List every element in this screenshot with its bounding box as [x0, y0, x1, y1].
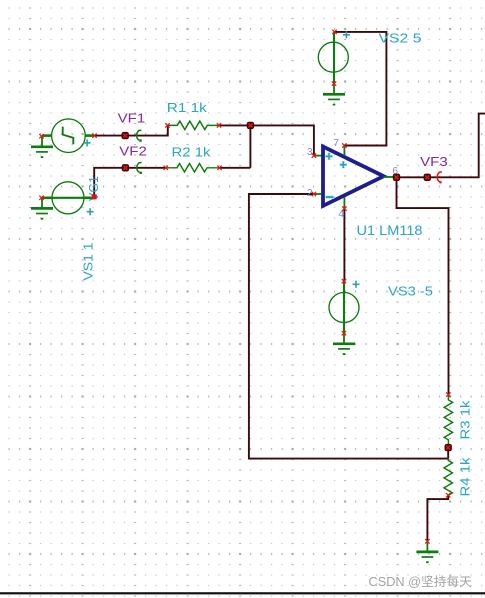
- svg-text:CSDN @坚持每天: CSDN @坚持每天: [369, 574, 473, 589]
- svg-text:VS1 1: VS1 1: [81, 243, 96, 281]
- ground: [31, 136, 53, 157]
- plus sign of VS1: [87, 208, 94, 215]
- junction node R3 R4: [445, 444, 452, 451]
- junction node output: [393, 174, 400, 181]
- pin end marker: [39, 196, 43, 200]
- minus marker input: [325, 195, 334, 199]
- pin end marker: [217, 123, 221, 127]
- probe VF2: [122, 163, 142, 175]
- pin end marker: [165, 123, 169, 127]
- pin end marker: [342, 143, 346, 147]
- wire: [427, 495, 448, 541]
- pin end marker: [342, 206, 346, 210]
- pin end marker: [217, 166, 221, 170]
- probe VF3: [424, 172, 442, 184]
- pin end marker: [446, 392, 450, 396]
- junction node: [247, 122, 254, 129]
- plus marker power: [340, 161, 348, 169]
- pin end marker: [425, 539, 429, 543]
- pin 4 stub: [343, 198, 345, 209]
- svg-text:R3 1k: R3 1k: [458, 400, 473, 440]
- op-amp U1: [323, 147, 384, 206]
- wire: [220, 167, 251, 169]
- voltage source VS3: [329, 281, 359, 333]
- svg-text:VF3: VF3: [420, 154, 448, 169]
- ground: [31, 198, 53, 219]
- svg-text:R1 1k: R1 1k: [167, 100, 208, 115]
- wire: [335, 32, 387, 146]
- resistor R4: [444, 459, 452, 496]
- svg-text:VS3 -5: VS3 -5: [388, 283, 433, 298]
- svg-text:VF1: VF1: [118, 111, 146, 126]
- pin end marker: [312, 192, 316, 196]
- wire: [219, 125, 314, 155]
- pin 7 stub: [343, 146, 345, 156]
- voltage source VG1 (clock): [42, 119, 93, 153]
- resistor R3: [444, 395, 452, 445]
- ground: [323, 84, 345, 105]
- resistor R2: [166, 164, 220, 173]
- resistor R1: [168, 121, 219, 130]
- wire: [93, 125, 168, 135]
- svg-text:R4 1k: R4 1k: [458, 457, 473, 497]
- pin end marker: [92, 133, 96, 137]
- pin end marker: [39, 134, 43, 138]
- pin 3 stub: [314, 155, 322, 157]
- pin end marker: [164, 166, 168, 170]
- ground: [416, 541, 438, 562]
- wire: [249, 125, 251, 167]
- wire: [249, 194, 448, 459]
- svg-text:4: 4: [338, 209, 344, 220]
- voltage source VS2: [318, 32, 348, 84]
- plus sign of VG1: [84, 139, 91, 146]
- ground: [333, 333, 355, 354]
- pin end marker: [446, 493, 450, 497]
- plus sign of VS3: [353, 281, 360, 288]
- svg-text:U1 LM118: U1 LM118: [357, 222, 423, 238]
- plus sign of VS2: [343, 31, 350, 38]
- wire: [397, 177, 449, 394]
- pin 6 stub: [384, 176, 397, 178]
- plus marker input: [325, 153, 333, 161]
- pin end marker: [312, 153, 316, 157]
- wire: [447, 448, 449, 459]
- pin end marker: [342, 279, 346, 283]
- pin end marker: [342, 331, 346, 335]
- wire: [343, 209, 345, 281]
- pin end marker: [332, 30, 336, 34]
- pin end marker: [92, 194, 97, 199]
- wire: [397, 114, 485, 178]
- svg-text:VF2: VF2: [119, 144, 147, 159]
- probe VF1: [122, 130, 142, 141]
- svg-text:2: 2: [307, 188, 313, 199]
- bottom border line: [0, 592, 485, 594]
- pin end marker: [332, 81, 336, 85]
- wire: [94, 168, 166, 197]
- voltage source VS1: [42, 182, 94, 214]
- svg-text:3: 3: [307, 147, 313, 158]
- svg-text:VS2 5: VS2 5: [379, 31, 422, 46]
- svg-text:R2 1k: R2 1k: [172, 144, 212, 159]
- svg-text:7: 7: [333, 138, 339, 149]
- pin 2 stub: [314, 193, 322, 195]
